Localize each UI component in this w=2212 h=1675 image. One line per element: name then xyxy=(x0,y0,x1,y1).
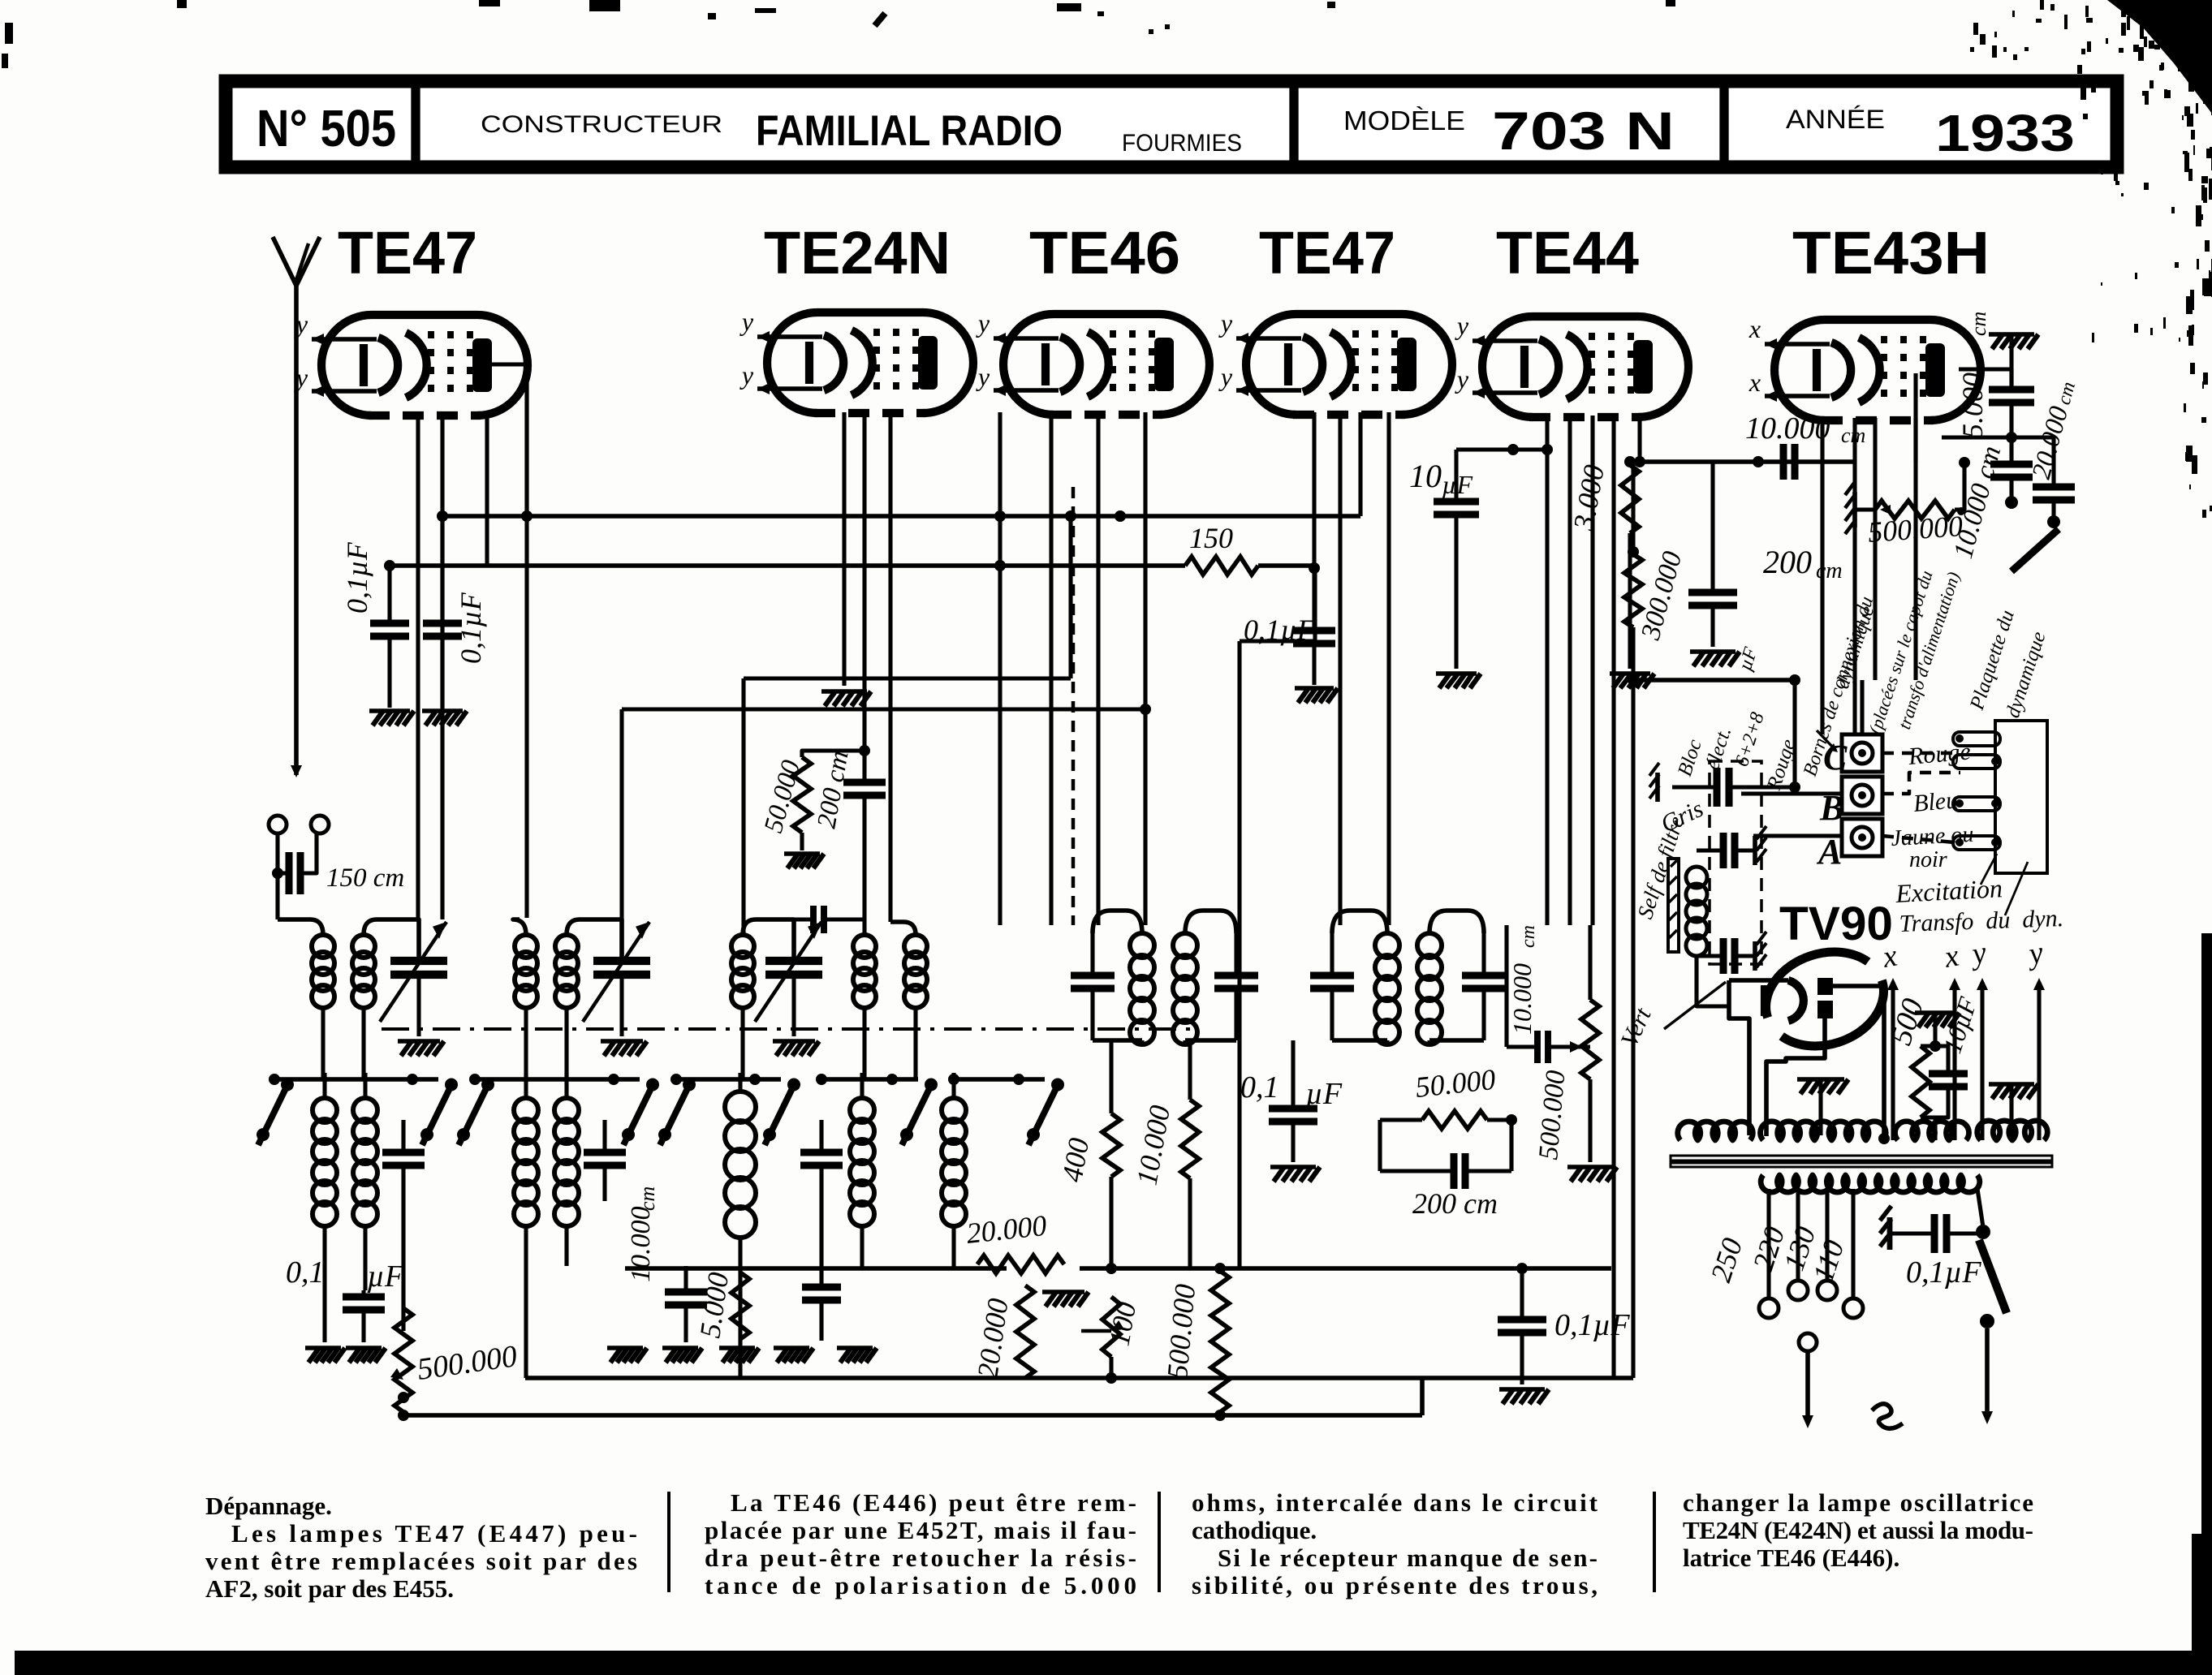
wire from TE43H anode right xyxy=(1959,369,2011,390)
svg-text:200: 200 xyxy=(1763,544,1812,580)
resistor 300.000 xyxy=(1624,462,1688,680)
wire dashed gang vertical xyxy=(1072,487,1076,925)
svg-text:y: y xyxy=(1218,308,1233,338)
transformer primary winding 1 xyxy=(1678,1122,1753,1140)
oscillator coils L6 L7 xyxy=(853,412,927,1081)
dashed C to lug xyxy=(1882,751,1955,756)
svg-text:changer la lampe oscillatrice: changer la lampe oscillatrice xyxy=(1683,1488,2033,1517)
terminal A xyxy=(1816,819,1882,872)
ground under TE24N cathode xyxy=(821,689,867,694)
dashed A to lug xyxy=(1882,836,1955,842)
wire bus right H4 xyxy=(1633,678,1795,682)
terminal posts antenna xyxy=(269,816,287,833)
ground top right xyxy=(1989,332,2034,337)
capacitor bloc B xyxy=(1672,680,1841,807)
column divider 2 xyxy=(1158,1492,1161,1592)
bloc dashed box xyxy=(1710,761,1761,964)
svg-text:Si le récepteur manque de sen-: Si le récepteur manque de sen- xyxy=(1218,1544,1598,1572)
scan top right corner blob xyxy=(2107,0,2212,114)
svg-text:cm: cm xyxy=(1816,558,1843,583)
svg-text:cathodique.: cathodique. xyxy=(1192,1516,1317,1544)
wire bus bottom H7 xyxy=(402,1413,1422,1418)
svg-text:µF: µF xyxy=(367,1259,404,1294)
repair notes column 3 xyxy=(1192,1488,1598,1600)
ground xyxy=(305,1346,341,1350)
mains plug pin xyxy=(1799,1333,1817,1351)
resistor 10.000 xyxy=(1130,1040,1199,1268)
IF transformer T2 xyxy=(1310,911,1506,1044)
wire step mid xyxy=(1237,641,1241,1269)
scan specks left xyxy=(5,23,13,44)
capacitor 200cm osc xyxy=(812,748,886,935)
lug 4 xyxy=(1953,836,2000,850)
capacitor trimmer C xyxy=(800,1120,843,1341)
capacitor padding osc xyxy=(794,906,865,933)
svg-text:cm: cm xyxy=(1518,925,1539,948)
capacitor 5.000cm xyxy=(1956,312,2034,438)
svg-text:AF2, soit par des E455.: AF2, soit par des E455. xyxy=(205,1574,454,1603)
wire bus H1 xyxy=(442,514,1360,519)
wire verticals from tubes xyxy=(416,412,420,919)
ground right arrow branch xyxy=(1989,1082,2034,1087)
ground near 100 xyxy=(1042,1290,1084,1294)
band coil L10 xyxy=(514,1073,538,1378)
wire TE24N grid down xyxy=(862,412,866,781)
svg-text:TE24N: TE24N xyxy=(764,219,951,286)
fuse squiggle xyxy=(1872,1404,1903,1428)
svg-text:TV90: TV90 xyxy=(1779,898,1893,950)
ground under 50.000 osc xyxy=(784,851,820,856)
transformer primary winding 2 xyxy=(1761,1122,1886,1140)
resistor 500.000 lower xyxy=(1161,1263,1229,1412)
svg-text:noir: noir xyxy=(1909,847,1947,872)
capacitor C2 0,1uF xyxy=(423,516,487,708)
svg-text:1933: 1933 xyxy=(1935,104,2075,162)
repair notes column 1 xyxy=(205,1492,637,1603)
svg-text:cm: cm xyxy=(636,1186,659,1211)
svg-text:latrice TE46 (E446).: latrice TE46 (E446). xyxy=(1683,1544,1899,1572)
ground under 200cm xyxy=(1690,649,1736,654)
capacitor bloc lower xyxy=(1697,932,1766,974)
wire TE43H anode down xyxy=(1913,418,1917,462)
ground under C2 xyxy=(422,708,463,713)
svg-text:Dépannage.: Dépannage. xyxy=(205,1492,332,1520)
resistor 150 xyxy=(1185,522,1258,575)
svg-text:Rouge: Rouge xyxy=(1907,738,1972,770)
svg-text:TE24N (E424N) et aussi la modu: TE24N (E424N) et aussi la modu- xyxy=(1683,1516,2033,1544)
terminal C xyxy=(1823,734,1882,777)
potentiometer 500.000 xyxy=(390,1201,520,1421)
svg-text:TE46: TE46 xyxy=(1029,219,1180,286)
ground xyxy=(662,1346,698,1350)
resistor 3.000 xyxy=(1567,456,1639,669)
tube V2 TE24N xyxy=(739,307,973,413)
tuned circuit L1 L2 CV1 xyxy=(278,873,447,1081)
lug 3 xyxy=(1953,797,2000,811)
capacitor 200cm right xyxy=(1688,462,1843,647)
switch right xyxy=(2011,529,2059,571)
antenna xyxy=(273,237,320,777)
svg-text:703 N: 703 N xyxy=(1492,101,1675,161)
IF transformer T1 xyxy=(1071,911,1258,1044)
ground xyxy=(837,1346,873,1350)
svg-text:y: y xyxy=(1455,311,1469,340)
svg-text:y: y xyxy=(1218,362,1233,391)
svg-text:5.000: 5.000 xyxy=(1956,372,1989,438)
ground left of bloc cap B xyxy=(1649,763,1659,802)
wire osc coupling B xyxy=(622,707,1145,711)
wire anode TE47a bend xyxy=(489,364,527,516)
ground mains cap xyxy=(1880,1206,1891,1250)
vertical wires mid-right xyxy=(1504,925,1508,1047)
svg-text:y: y xyxy=(976,362,990,391)
svg-text:200 cm: 200 cm xyxy=(1412,1187,1498,1220)
capacitor 10.000cm grid xyxy=(1507,925,1590,1063)
band coil L12 xyxy=(725,1073,756,1378)
title block frame xyxy=(226,81,2117,167)
ground under 0,1uF coupling xyxy=(1295,686,1334,691)
tube V4 TE47 xyxy=(1218,308,1452,415)
wire bus bottom H6 xyxy=(525,1376,1633,1380)
capacitor 10uF xyxy=(1409,444,1553,669)
svg-text:x: x xyxy=(1748,314,1761,343)
resistor 100 with tap xyxy=(1081,1297,1142,1384)
switch S8 xyxy=(1027,1128,1040,1141)
band coil L11 xyxy=(554,1073,579,1266)
capacitor 0,1uF row2 xyxy=(286,1255,404,1342)
scan right edge strip xyxy=(2201,933,2212,1675)
ground under 10uF xyxy=(1436,671,1477,676)
svg-text:y: y xyxy=(739,307,754,336)
svg-text:y: y xyxy=(1455,364,1469,394)
band coil L8 xyxy=(313,1073,337,1342)
switch S3 xyxy=(457,1128,470,1141)
svg-text:FOURMIES: FOURMIES xyxy=(1122,130,1242,157)
switch S4 xyxy=(622,1128,635,1141)
tuned circuit L3 L4 CV2 xyxy=(513,919,650,1081)
capacitor trimmer A xyxy=(382,1120,425,1201)
resistor 500.000 det xyxy=(1533,925,1599,1162)
resistor 50.000 osc xyxy=(759,745,870,850)
switch S7 xyxy=(900,1128,913,1141)
column divider 1 xyxy=(667,1492,670,1592)
resistor 400 xyxy=(1055,1040,1120,1274)
svg-text:TE47: TE47 xyxy=(1259,219,1395,286)
svg-text:ANNÉE: ANNÉE xyxy=(1786,105,1885,134)
wire vertical 545 extension xyxy=(440,516,444,919)
capacitor 150cm xyxy=(272,833,404,894)
svg-text:A: A xyxy=(1816,832,1842,872)
ground xyxy=(607,1346,643,1350)
svg-text:Bleu: Bleu xyxy=(1912,786,1960,817)
svg-text:150: 150 xyxy=(1189,522,1233,554)
svg-text:y: y xyxy=(739,360,754,390)
arrow bornes xyxy=(1817,730,1836,751)
dashed B to lug xyxy=(1882,773,1960,794)
svg-text:cm: cm xyxy=(1841,424,1865,447)
switch S6 xyxy=(763,1128,776,1141)
terminal B xyxy=(1819,777,1882,828)
ground TV90 center xyxy=(1797,1077,1844,1082)
secondary taps xyxy=(1759,1189,1863,1318)
repair notes column 2 xyxy=(705,1488,1136,1600)
ground under 0,1uF IF xyxy=(1270,1165,1316,1169)
svg-text:FAMILIAL RADIO: FAMILIAL RADIO xyxy=(756,107,1063,155)
svg-text:dra peut-être retoucher la rés: dra peut-être retoucher la résis- xyxy=(705,1544,1136,1572)
resistor 20.000 vertical xyxy=(971,1285,1034,1380)
ground left of 500.000 xyxy=(1845,482,1874,534)
tube V6 TE43H xyxy=(1748,314,1981,420)
capacitor 10.000cm right xyxy=(1948,437,2033,562)
gang dash line xyxy=(382,1027,1193,1031)
ground xyxy=(346,1346,382,1350)
scan bottom black bar xyxy=(15,1651,2212,1675)
ground under C1 xyxy=(369,708,410,713)
x y arrows above transformer xyxy=(1887,978,2045,1140)
choke self de filtre xyxy=(1625,813,1707,956)
resistor 5.000 xyxy=(693,1270,749,1340)
svg-text:10.000: 10.000 xyxy=(1745,411,1830,446)
transformer secondary winding xyxy=(1761,1175,1980,1192)
svg-text:0,1µF: 0,1µF xyxy=(1906,1255,1981,1290)
band coil L14 xyxy=(942,1073,966,1268)
transformer primary winding 3 xyxy=(1895,1122,1969,1140)
left return wire xyxy=(1631,680,1635,1378)
svg-text:CONSTRUCTEUR: CONSTRUCTEUR xyxy=(481,111,722,138)
resistor 50.000 mid xyxy=(1380,1063,1517,1171)
svg-text:0,1µF: 0,1µF xyxy=(341,541,373,614)
ground xyxy=(774,1346,809,1350)
band coil L13 xyxy=(850,1073,874,1268)
ground under 0,1uF right xyxy=(1499,1387,1545,1392)
capacitor bloc upper xyxy=(1697,826,1766,868)
capacitor 0,1uF mains xyxy=(1891,1214,1983,1290)
capacitor trimmer B xyxy=(584,1120,626,1201)
column divider 3 xyxy=(1653,1492,1656,1592)
junction dots bus xyxy=(437,510,448,522)
svg-text:Transfo du dyn.: Transfo du dyn. xyxy=(1899,905,2064,937)
svg-text:TE44: TE44 xyxy=(1496,219,1639,286)
ground under 500.000 det xyxy=(1567,1165,1613,1169)
svg-text:10.000: 10.000 xyxy=(1507,963,1537,1035)
capacitor 0,1uF right xyxy=(1498,1308,1630,1384)
resistor 20.000 horizontal xyxy=(965,1209,1064,1273)
svg-text:0,1µF: 0,1µF xyxy=(455,592,487,664)
ground under 3.000 xyxy=(1610,671,1650,676)
switch S5 xyxy=(658,1128,671,1141)
svg-text:sibilité, ou présente des trou: sibilité, ou présente des trous, xyxy=(1192,1571,1598,1600)
transformer primary winding 4 xyxy=(1977,1121,2048,1140)
svg-text:TE43H: TE43H xyxy=(1792,219,1990,286)
svg-text:0,1: 0,1 xyxy=(1240,1070,1279,1104)
repair notes column 4 xyxy=(1683,1488,2033,1572)
tuned circuit L5 CV3 xyxy=(731,919,822,1081)
capacitor 0,1uF coupling mid xyxy=(1244,562,1335,685)
capacitor 0,1uF IF xyxy=(1240,1040,1343,1162)
svg-text:y: y xyxy=(976,308,990,338)
wire bus right of TE43H xyxy=(1942,435,2055,439)
svg-text:0,1µF: 0,1µF xyxy=(1554,1308,1630,1342)
wire B terminal xyxy=(1741,791,1841,795)
svg-text:Excitation: Excitation xyxy=(1894,873,2003,908)
plaquette du dynamique board xyxy=(1995,721,2047,873)
capacitor 200cm mid xyxy=(1380,1120,1511,1220)
transformer core xyxy=(1671,1156,2052,1160)
capacitor 10.000cm coupling xyxy=(1745,411,1865,480)
wire bus lower H5 xyxy=(625,1266,1007,1271)
lug 2 xyxy=(1953,755,2000,769)
svg-text:500.000: 500.000 xyxy=(1867,510,1964,549)
resistor 500 filament xyxy=(1884,995,1960,1117)
switch S2 xyxy=(420,1128,433,1141)
wire vert to TV90 xyxy=(1664,982,1726,1029)
resistor 500.000 grid TE43H xyxy=(1867,457,1970,549)
capacitor 10uF filament xyxy=(1929,993,1982,1140)
svg-text:N° 505: N° 505 xyxy=(257,99,396,157)
wire row2 A top xyxy=(274,1077,438,1082)
tube V5 TE44 xyxy=(1455,311,1688,417)
svg-text:ohms, intercalée dans le circu: ohms, intercalée dans le circuit xyxy=(1192,1488,1598,1517)
tube V3 TE46 xyxy=(976,308,1209,415)
scan specks top xyxy=(589,0,620,11)
rectifier tube TV90 xyxy=(1729,937,1896,1144)
wire bus H2 xyxy=(390,563,1185,568)
svg-text:150 cm: 150 cm xyxy=(326,863,404,893)
pointer lines plaquette xyxy=(1981,854,1997,885)
lug 1 xyxy=(1953,732,2000,746)
svg-text:x: x xyxy=(1748,368,1761,397)
capacitor bloc A xyxy=(1725,835,1841,837)
mains switch xyxy=(1976,1189,2007,1424)
svg-text:10: 10 xyxy=(1409,458,1442,494)
svg-text:MODÈLE: MODÈLE xyxy=(1343,105,1465,136)
svg-text:TE47: TE47 xyxy=(338,219,477,286)
svg-text:0,1: 0,1 xyxy=(286,1255,325,1290)
svg-text:cm: cm xyxy=(1967,312,1990,336)
capacitor 10.000cm xyxy=(626,1186,707,1342)
wire osc coupling A xyxy=(744,676,1071,680)
capacitor C1 0,1uF xyxy=(341,541,409,708)
capacitor 20.000cm xyxy=(2027,380,2080,528)
tube V1 TE47 xyxy=(294,309,528,416)
band coil L9 xyxy=(353,1073,377,1290)
wire anode TE44 bus H3 xyxy=(1640,459,1855,464)
wire C up xyxy=(1860,680,1864,734)
ground xyxy=(719,1346,755,1350)
switch S1 xyxy=(257,1128,269,1141)
svg-text:10.000: 10.000 xyxy=(626,1207,656,1283)
